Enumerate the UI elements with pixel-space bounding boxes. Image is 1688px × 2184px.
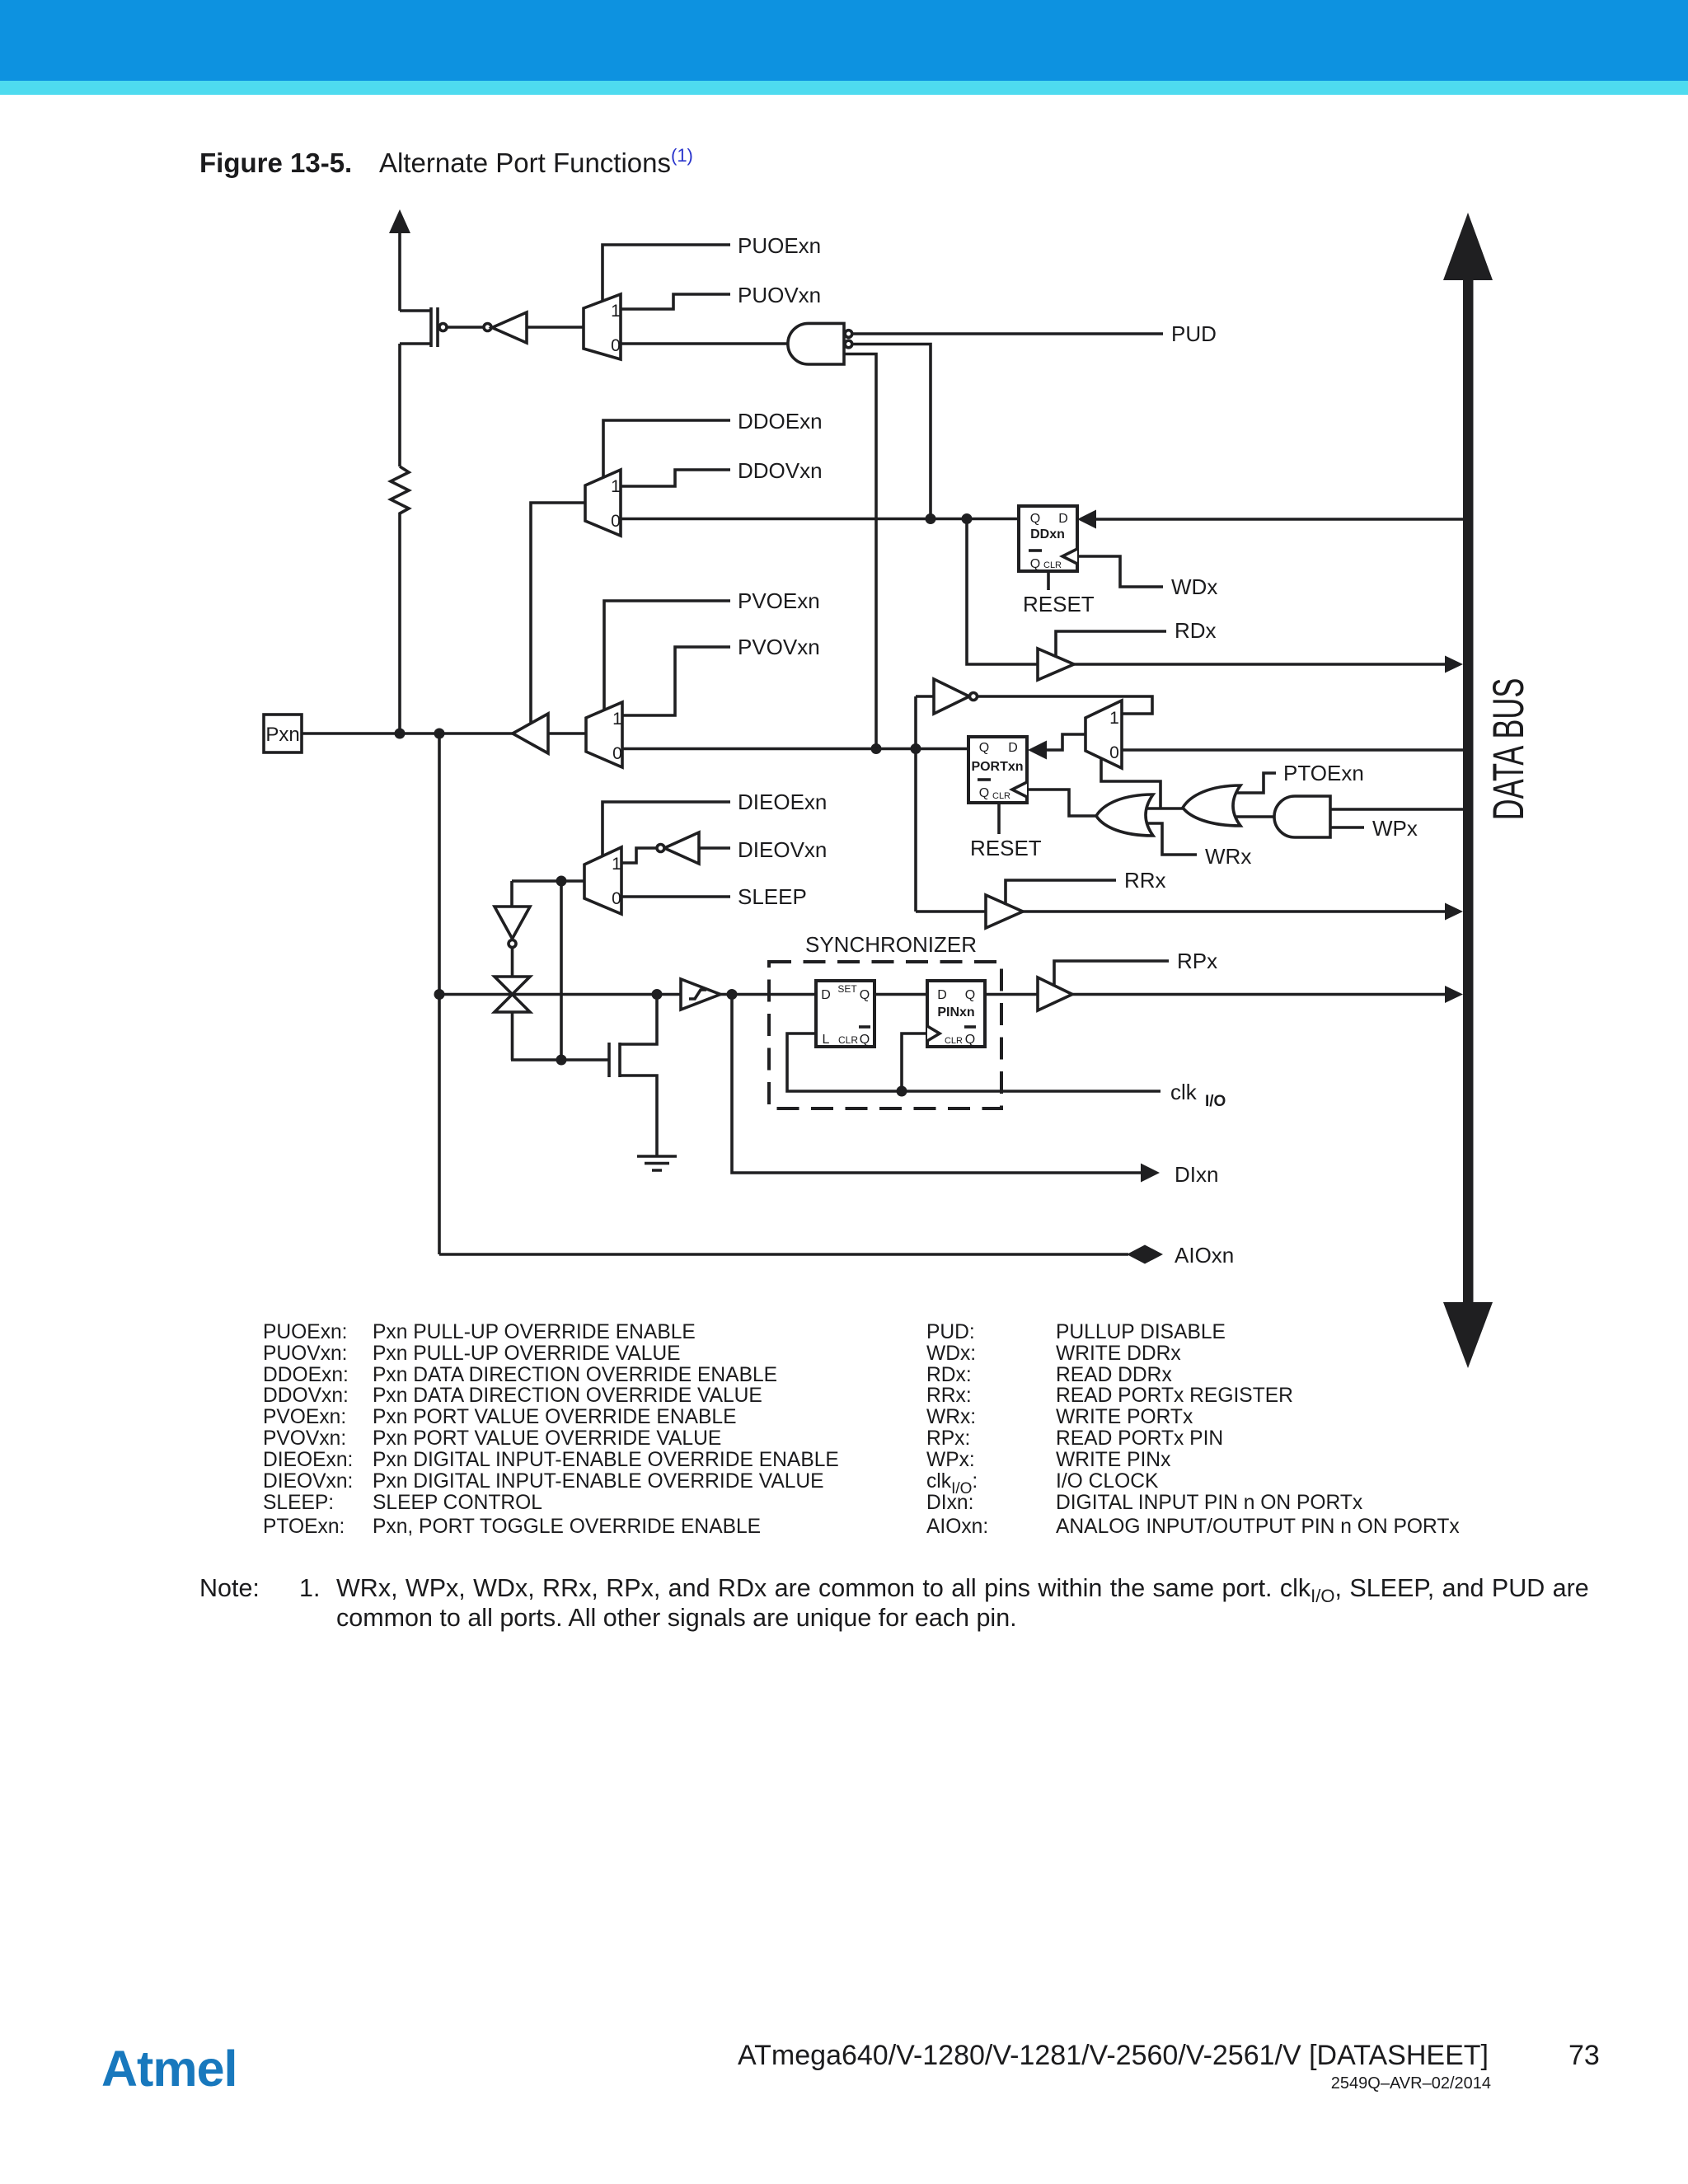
wire PVOVxn to mux 1 input <box>622 647 730 715</box>
wire PUOVxn to mux 1 input <box>621 294 730 309</box>
wire G1 output to mux M1 input 0 <box>621 342 788 345</box>
wire RPx output to data bus with arrowhead <box>1072 986 1463 1003</box>
svg-text:D: D <box>1058 512 1068 526</box>
wire G2 top input from mux select line / OR G3 output <box>1147 807 1183 810</box>
wire mux M4 output <box>512 881 584 1060</box>
svg-text:Figure 13-5.: Figure 13-5. <box>199 148 352 178</box>
svg-text:D: D <box>1008 741 1018 755</box>
wire G1 input 3 to PORTxn Q line <box>844 354 876 749</box>
svg-text:PUD: PUD <box>1171 321 1217 346</box>
svg-text:clk: clk <box>1170 1080 1198 1104</box>
svg-text:Pxn DATA DIRECTION OVERRIDE EN: Pxn DATA DIRECTION OVERRIDE ENABLE <box>373 1364 777 1386</box>
svg-text:1: 1 <box>1109 709 1119 728</box>
node junction nMOS gate wire <box>556 1055 567 1066</box>
svg-text:Q: Q <box>979 741 989 755</box>
wire vertical tap (inverter above, RRx buffer below) <box>916 696 986 912</box>
wire inverter U2 output to PORTxn input mux <box>978 696 1152 714</box>
wire latch L1 clock input L <box>787 1033 1160 1091</box>
svg-text:READ PORTx PIN: READ PORTx PIN <box>1056 1427 1223 1450</box>
wire G4 output to G3 bottom input <box>1236 815 1274 818</box>
footer <box>101 2040 1600 2097</box>
svg-text:WRx: WRx <box>1205 844 1251 869</box>
svg-text:DIEOVxn:: DIEOVxn: <box>263 1470 353 1493</box>
node AIOxn diamond terminal <box>1127 1245 1163 1264</box>
svg-text:WDx:: WDx: <box>926 1343 976 1365</box>
wire G2 bottom input from WRx <box>1147 823 1197 855</box>
wire DDxn reset stub <box>1047 571 1050 590</box>
node junction DIEO output <box>556 876 567 887</box>
wire DDOVxn to mux 1 input <box>621 470 730 486</box>
svg-text:SLEEP:: SLEEP: <box>263 1492 334 1514</box>
wire PTOExn to G3 top input <box>1236 773 1276 793</box>
svg-text:Pxn DATA DIRECTION OVERRIDE VA: Pxn DATA DIRECTION OVERRIDE VALUE <box>373 1385 762 1407</box>
svg-text:WDx: WDx <box>1171 574 1217 599</box>
svg-text:0: 0 <box>1109 743 1119 762</box>
svg-text:DIxn:: DIxn: <box>926 1492 973 1514</box>
svg-text:RESET: RESET <box>1023 592 1095 616</box>
svg-text:Note:: Note: <box>199 1574 260 1602</box>
output driver T1 tri-state <box>513 714 548 753</box>
svg-text:CLR: CLR <box>1043 560 1062 570</box>
svg-text:RDx:: RDx: <box>926 1364 972 1386</box>
wire mux M5 select from OR gate <box>1101 758 1160 808</box>
svg-text:I/O: I/O <box>1205 1093 1226 1110</box>
gate G2 OR (facing left) clock combine <box>1096 794 1153 836</box>
svg-text:(1): (1) <box>671 145 693 166</box>
wire DDxn clock to WDx <box>1077 556 1163 587</box>
mux M5 PORTxn input select <box>1085 701 1122 768</box>
transistor Q1 pull-up pMOS <box>400 307 447 466</box>
header blue banner <box>0 0 1688 81</box>
svg-text:0: 0 <box>612 744 622 763</box>
svg-text:Q: Q <box>965 988 975 1002</box>
svg-text:DDOVxn:: DDOVxn: <box>263 1385 349 1407</box>
synchronizer dashed box <box>769 962 1001 1108</box>
flip-flop PORTxn <box>968 737 1027 803</box>
svg-text:WRx:: WRx: <box>926 1406 976 1428</box>
svg-text:Pxn PULL-UP OVERRIDE ENABLE: Pxn PULL-UP OVERRIDE ENABLE <box>373 1321 696 1343</box>
svg-text:PVOExn: PVOExn <box>738 588 820 613</box>
svg-text:Alternate Port Functions: Alternate Port Functions <box>379 148 671 178</box>
node junction input line to nMOS drain <box>652 989 663 1000</box>
wire RDx enable <box>1056 631 1166 658</box>
svg-text:DDxn: DDxn <box>1030 527 1065 541</box>
wire inverter input from PUO mux output <box>527 326 584 329</box>
svg-text:PTOExn: PTOExn <box>1283 761 1364 785</box>
wire PINxn clock tap <box>902 1033 927 1091</box>
wire AIOxn line <box>439 1253 1128 1256</box>
wire DIEOExn select <box>603 802 730 855</box>
node junction on Pxn line at resistor <box>395 729 406 739</box>
wire DDxn D input from data bus with arrowhead <box>1077 510 1465 529</box>
wire G1 input 2 to DDxn D line <box>852 344 931 520</box>
wire OR G2 output to PORTxn clock <box>1027 790 1096 816</box>
pass gate PG1 (analog switch) <box>495 977 530 1012</box>
svg-text:Pxn PORT VALUE OVERRIDE VALUE: Pxn PORT VALUE OVERRIDE VALUE <box>373 1427 721 1450</box>
svg-text:DIEOExn:: DIEOExn: <box>263 1449 353 1471</box>
wire DDOExn select <box>603 420 730 478</box>
svg-text:0: 0 <box>612 889 621 908</box>
wire PUD input to G1 <box>852 332 1163 335</box>
svg-text:Pxn: Pxn <box>265 724 299 746</box>
node junction Pxn line to input path <box>434 729 445 739</box>
mux M4 digital input enable override (DIEOExn) <box>584 847 621 914</box>
wire data bus to G4 top input <box>1330 808 1465 811</box>
wire DIEOVxn to inverter U3 <box>699 846 730 850</box>
wire RRx output to data bus with arrowhead <box>1023 903 1463 921</box>
svg-text:PUOVxn:: PUOVxn: <box>263 1343 348 1365</box>
svg-text:Pxn PULL-UP OVERRIDE VALUE: Pxn PULL-UP OVERRIDE VALUE <box>373 1343 681 1365</box>
buffer RPx (read pin) <box>1038 977 1072 1010</box>
svg-text:Q: Q <box>860 1033 870 1047</box>
svg-text:SLEEP CONTROL: SLEEP CONTROL <box>373 1492 542 1514</box>
wire latch L1 Q to PINxn D <box>874 993 927 996</box>
svg-text:CLR: CLR <box>992 791 1010 801</box>
node junction DDxn line to RDx buffer <box>962 513 973 524</box>
svg-text:common to all ports. All other: common to all ports. All other signals a… <box>336 1604 1017 1632</box>
wire input line Pxn to schmitt <box>439 993 681 996</box>
svg-text:AIOxn:: AIOxn: <box>926 1516 988 1538</box>
svg-text:ANALOG INPUT/OUTPUT PIN n ON P: ANALOG INPUT/OUTPUT PIN n ON PORTx <box>1056 1516 1460 1538</box>
svg-text:Q: Q <box>1030 557 1040 571</box>
svg-text:WRITE PORTx: WRITE PORTx <box>1056 1406 1193 1428</box>
svg-text:READ PORTx REGISTER: READ PORTx REGISTER <box>1056 1385 1293 1407</box>
svg-text:RRx:: RRx: <box>926 1385 972 1407</box>
svg-text:DDOVxn: DDOVxn <box>738 458 823 483</box>
svg-text:PVOVxn:: PVOVxn: <box>263 1427 346 1450</box>
svg-text:WPx: WPx <box>1372 816 1418 841</box>
inverter U4 (pointing down) <box>495 907 530 948</box>
mux M1 pull-up override (PUOExn) <box>584 294 621 359</box>
svg-text:WRITE DDRx: WRITE DDRx <box>1056 1343 1181 1365</box>
svg-text:Q: Q <box>1030 512 1040 526</box>
wire driver input from PVO mux <box>548 732 586 735</box>
data bus bottom arrowhead <box>1443 1302 1493 1368</box>
svg-text:RDx: RDx <box>1175 618 1217 643</box>
ground symbol <box>637 1156 677 1170</box>
svg-text:WRITE PINx: WRITE PINx <box>1056 1449 1171 1471</box>
wire PVOExn select <box>604 601 730 710</box>
data bus top arrowhead <box>1443 213 1493 280</box>
svg-text:SET: SET <box>837 983 857 995</box>
wire PORTxn reset stub <box>997 803 1001 834</box>
wire tap to RDx buffer input <box>967 519 1038 665</box>
buffer RRx (read PORTx register) <box>986 895 1023 928</box>
svg-text:CLR: CLR <box>945 1036 963 1046</box>
wire RRx enable <box>1006 880 1116 905</box>
svg-text:DIEOExn: DIEOExn <box>738 790 827 814</box>
label clk I/O <box>1170 1080 1226 1110</box>
wire inverter U3 output to mux 1 input <box>621 848 657 863</box>
wire pass gate to nMOS gate <box>511 1012 609 1060</box>
svg-text:SYNCHRONIZER: SYNCHRONIZER <box>805 932 977 957</box>
svg-text:PVOVxn: PVOVxn <box>738 635 820 659</box>
wire vertical input path from Pxn node <box>438 733 441 1254</box>
wire PINxn Q to RPx buffer <box>985 993 1038 996</box>
svg-text:RPx:: RPx: <box>926 1427 970 1450</box>
svg-text:PVOExn:: PVOExn: <box>263 1406 346 1428</box>
node junction clk line <box>897 1086 907 1097</box>
wire Pxn line to output driver <box>302 732 513 735</box>
svg-text:Q: Q <box>979 786 989 800</box>
wire PORTxn Q line to mux M3 input 0 <box>622 748 968 751</box>
svg-text:CLR: CLR <box>838 1034 858 1046</box>
wire data bus to mux M5 input 0 <box>1122 748 1465 752</box>
node junction input line at x533 <box>434 989 445 1000</box>
svg-text:PORTxn: PORTxn <box>971 760 1023 774</box>
svg-text:AIOxn: AIOxn <box>1175 1243 1234 1268</box>
svg-text:PULLUP DISABLE: PULLUP DISABLE <box>1056 1321 1226 1343</box>
svg-text:Pxn DIGITAL INPUT-ENABLE OVERR: Pxn DIGITAL INPUT-ENABLE OVERRIDE ENABLE <box>373 1449 839 1471</box>
wire DIxn tap down and to arrow <box>732 995 1160 1183</box>
svg-text:READ DDRx: READ DDRx <box>1056 1364 1172 1386</box>
svg-text:0: 0 <box>611 512 621 531</box>
wire SLEEP to mux 0 input <box>621 895 730 898</box>
gate G4 AND (facing left) pin-write <box>1274 796 1330 837</box>
svg-text:SLEEP: SLEEP <box>738 884 807 909</box>
svg-text:D: D <box>937 988 947 1002</box>
resistor R1 pull-up <box>391 466 409 733</box>
transistor Q2 clamp nMOS <box>609 994 657 1156</box>
svg-text:PUOExn: PUOExn <box>738 233 821 258</box>
svg-text:DIEOVxn: DIEOVxn <box>738 837 827 862</box>
svg-text:WPx:: WPx: <box>926 1449 975 1471</box>
node Pxn pad box <box>264 715 302 752</box>
svg-text:PTOExn:: PTOExn: <box>263 1516 345 1538</box>
svg-text:DIxn: DIxn <box>1175 1162 1218 1187</box>
note paragraph <box>199 1574 1589 1632</box>
svg-text:1: 1 <box>612 710 622 729</box>
svg-text:1: 1 <box>611 302 621 321</box>
node junction on DDxn D line <box>926 513 936 524</box>
svg-text:DIGITAL INPUT PIN n ON PORTx: DIGITAL INPUT PIN n ON PORTx <box>1056 1492 1363 1514</box>
data bus vertical trunk <box>1463 279 1474 1304</box>
wire WPx to G4 bottom input <box>1330 826 1364 829</box>
svg-text:73: 73 <box>1568 2040 1600 2071</box>
inverter U1 (pull-up control, bubble input left) <box>484 312 527 343</box>
mux M3 port value override (PVOExn) <box>586 702 622 767</box>
svg-text:2549Q–AVR–02/2014: 2549Q–AVR–02/2014 <box>1331 2074 1491 2093</box>
svg-text:Q: Q <box>860 988 870 1002</box>
wire RDx output to data bus with arrowhead <box>1074 656 1463 673</box>
svg-text:PUOVxn: PUOVxn <box>738 283 821 307</box>
svg-text:1.: 1. <box>299 1574 320 1602</box>
flip-flop PINxn <box>927 981 985 1047</box>
svg-text:D: D <box>821 988 831 1002</box>
svg-text:0: 0 <box>611 336 621 355</box>
wire mux M5 output to PORTxn D <box>1046 734 1085 750</box>
svg-text:Atmel: Atmel <box>101 2041 237 2097</box>
svg-text:Q: Q <box>965 1033 975 1047</box>
svg-text:Pxn DIGITAL INPUT-ENABLE OVERR: Pxn DIGITAL INPUT-ENABLE OVERRIDE VALUE <box>373 1470 824 1493</box>
buffer RDx (read DDRx) <box>1038 649 1074 680</box>
svg-text:ATmega640/V-1280/V-1281/V-2560: ATmega640/V-1280/V-1281/V-2560/V-2561/V … <box>738 2040 1489 2071</box>
svg-text:RESET: RESET <box>970 836 1042 860</box>
inverter U2 (toggle feedback) <box>934 679 978 714</box>
flip-flop DDxn <box>1019 506 1077 571</box>
svg-text:Pxn, PORT TOGGLE OVERRIDE ENAB: Pxn, PORT TOGGLE OVERRIDE ENABLE <box>373 1516 761 1538</box>
svg-text:Pxn PORT VALUE OVERRIDE ENABLE: Pxn PORT VALUE OVERRIDE ENABLE <box>373 1406 736 1428</box>
svg-text:DDOExn:: DDOExn: <box>263 1364 349 1386</box>
wire PUOExn select <box>603 245 730 300</box>
svg-text:L: L <box>823 1033 830 1047</box>
svg-text:RPx: RPx <box>1177 949 1217 973</box>
wire PORTxn D arrowhead <box>1028 741 1047 760</box>
wire RPx enable <box>1054 961 1169 987</box>
svg-text:PUD:: PUD: <box>926 1321 975 1343</box>
svg-text:DDOExn: DDOExn <box>738 409 823 434</box>
svg-text:PINxn: PINxn <box>937 1005 974 1019</box>
wire mux M2 output to driver enable <box>531 503 585 724</box>
latch L1 (D SET Q / L CLR Q) <box>816 981 874 1047</box>
svg-text:WRx, WPx, WDx, RRx, RPx, and R: WRx, WPx, WDx, RRx, RPx, and RDx are com… <box>336 1574 1589 1606</box>
svg-text:I/O CLOCK: I/O CLOCK <box>1056 1470 1159 1493</box>
header cyan strip <box>0 81 1688 95</box>
wire U4 output to pass gate <box>511 948 514 977</box>
node junction Q line to inverter/RRx tap <box>911 743 921 754</box>
gate G3 OR (facing left) toggle combine <box>1183 785 1240 826</box>
schmitt trigger U5 <box>681 979 720 1010</box>
node junction schmitt output <box>727 989 738 1000</box>
node junction on PORTxn Q line <box>871 743 882 754</box>
svg-text:1: 1 <box>612 855 621 874</box>
power VCC arrow symbol <box>389 209 410 311</box>
mux M2 data direction override (DDOExn) <box>585 470 621 536</box>
svg-text:1: 1 <box>611 477 621 496</box>
gate G1 pull-up enable AND (facing left, inverted inputs) <box>788 323 852 364</box>
wire gate of Q1 to inverter output <box>447 326 484 329</box>
svg-text:PUOExn:: PUOExn: <box>263 1321 348 1343</box>
wire schmitt output to synchronizer <box>720 993 816 996</box>
svg-text:RRx: RRx <box>1124 868 1166 893</box>
wire DDxn Q line to mux M2 input 0 <box>621 518 1019 521</box>
inverter U3 (DIEOVxn) <box>657 832 699 864</box>
svg-text:DATA BUS: DATA BUS <box>1484 678 1533 821</box>
